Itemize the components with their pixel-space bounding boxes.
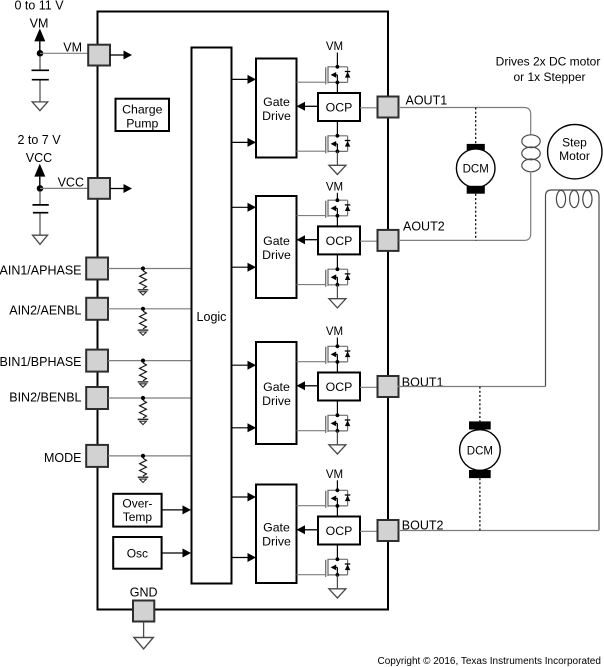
wire: [108, 360, 191, 362]
svg-text:MODE: MODE: [44, 451, 82, 465]
wire: [336, 545, 338, 560]
node VCC: [37, 185, 44, 192]
gate drive U1: [256, 59, 297, 158]
wire: [336, 254, 338, 269]
svg-text:OCP: OCP: [326, 380, 353, 394]
pin BIN2/BENBL: [86, 387, 108, 409]
svg-text:Gate: Gate: [263, 95, 290, 109]
ground: [134, 638, 153, 649]
ground: [138, 290, 149, 295]
node VM: [37, 50, 44, 57]
wire: [297, 81, 326, 83]
wire: [336, 121, 338, 136]
wire: [297, 150, 326, 152]
wire: [108, 268, 191, 270]
svg-text:Gate: Gate: [263, 380, 290, 394]
pin label VCC: [58, 176, 84, 190]
transistor low-side NMOS U3: [326, 413, 351, 433]
svg-text:BOUT1: BOUT1: [402, 376, 444, 390]
wire: [545, 200, 547, 387]
svg-text:DCM: DCM: [467, 445, 493, 457]
supply rail 2 to 7 V / VCC source: [17, 133, 61, 189]
signal arrow logic to gate drive U4 (low): [248, 553, 257, 562]
pin AOUT2: [378, 230, 399, 251]
svg-text:Pump: Pump: [126, 116, 158, 130]
motor DCM1: [456, 144, 495, 194]
ground: [33, 235, 48, 244]
OCP block U4: [318, 517, 360, 545]
signal arrow logic to gate drive U1 (high): [248, 75, 257, 84]
motor DCM2: [460, 421, 501, 478]
svg-text:Motor: Motor: [559, 149, 590, 163]
svg-text:VM: VM: [326, 469, 343, 481]
svg-text:VM: VM: [326, 181, 343, 193]
node AIN2/AENBL: [141, 307, 145, 311]
wire: [297, 430, 326, 432]
node BIN2/BENBL: [141, 396, 145, 400]
wire: [360, 530, 378, 532]
ground: [32, 102, 48, 111]
wire: [360, 240, 378, 242]
wire: [399, 530, 600, 532]
signal arrow OCP to gate drive U2: [297, 235, 319, 244]
gate drive U3: [256, 342, 297, 444]
svg-text:Drive: Drive: [262, 109, 291, 123]
wire: [232, 78, 249, 80]
ground: [138, 382, 149, 387]
pin label MODE: [44, 451, 82, 465]
transistor high-side NMOS U3: [326, 344, 351, 364]
wire: [108, 455, 191, 457]
pin MODE: [86, 445, 108, 467]
wire: [336, 362, 338, 373]
pin BOUT1: [378, 376, 399, 397]
wire: [336, 82, 338, 93]
pin AIN2/AENBL: [86, 298, 108, 320]
svg-text:Osc: Osc: [127, 547, 148, 561]
svg-text:VCC: VCC: [26, 151, 52, 165]
svg-text:Charge: Charge: [122, 102, 162, 116]
wire: [232, 496, 249, 498]
oscillator block: [113, 537, 161, 569]
signal arrow over-temp to logic: [162, 505, 191, 514]
svg-text:Over-: Over-: [122, 497, 152, 511]
svg-text:OCP: OCP: [326, 524, 353, 538]
charge pump block: [116, 99, 170, 131]
wire: [336, 480, 338, 490]
wire: [232, 266, 249, 268]
wire: [232, 364, 249, 366]
svg-text:AIN1/APHASE: AIN1/APHASE: [0, 263, 82, 277]
svg-text:GND: GND: [130, 586, 158, 600]
over-temperature block: [113, 494, 161, 527]
wire: [546, 190, 600, 531]
signal arrow VCC: [110, 184, 132, 193]
annotation copyright: [378, 656, 601, 667]
resistor pulldown AIN2/AENBL: [140, 311, 147, 329]
supply rail 0 to 11 V / VM source: [14, 0, 64, 53]
svg-text:Gate: Gate: [263, 521, 290, 535]
svg-text:DCM: DCM: [463, 164, 489, 176]
pin GND: [133, 601, 154, 622]
svg-text:AOUT2: AOUT2: [403, 219, 445, 233]
OCP block U3: [318, 373, 360, 401]
wire: [336, 193, 338, 200]
wire: [232, 141, 249, 143]
pin AIN1/APHASE: [86, 258, 108, 280]
svg-text:Drive: Drive: [262, 394, 291, 408]
svg-text:AOUT1: AOUT1: [406, 93, 448, 107]
pin BOUT2: [378, 520, 399, 541]
net VM U3: [326, 326, 343, 338]
svg-text:0 to 11 V: 0 to 11 V: [14, 0, 64, 13]
signal arrow VM: [110, 51, 132, 60]
wire: [143, 622, 145, 638]
logic block: [192, 48, 232, 584]
signal arrow logic to gate drive U4 (high): [248, 493, 257, 502]
wire: [475, 194, 477, 241]
wire: [336, 53, 338, 67]
wire: [398, 386, 546, 388]
ground: [138, 330, 149, 335]
wire: [479, 478, 481, 530]
resistor pulldown AIN1/APHASE: [140, 271, 147, 289]
wire: [399, 172, 531, 241]
pin VM: [88, 45, 110, 66]
svg-text:Gate: Gate: [263, 234, 290, 248]
ground: [329, 445, 346, 454]
net VM U1: [326, 41, 343, 53]
net VM U2: [326, 181, 343, 193]
svg-text:Drive: Drive: [262, 248, 291, 262]
inductor winding A: [522, 135, 540, 172]
wire: [297, 505, 326, 507]
wire: [336, 431, 338, 445]
wire: [336, 151, 338, 165]
wire: [479, 387, 481, 422]
wire: [336, 575, 338, 589]
wire: [232, 206, 249, 208]
node MODE: [141, 454, 145, 458]
svg-text:or 1x Stepper: or 1x Stepper: [513, 70, 585, 84]
pin label BOUT1: [402, 376, 444, 390]
pin label AIN1/APHASE: [0, 263, 82, 277]
transistor high-side NMOS U2: [326, 198, 351, 218]
pin label AIN2/AENBL: [9, 303, 81, 317]
wire: [232, 557, 249, 559]
wire: [336, 401, 338, 416]
wire: [360, 386, 378, 388]
net VM U4: [326, 469, 343, 481]
svg-text:BIN1/BPHASE: BIN1/BPHASE: [0, 355, 82, 369]
svg-text:VM: VM: [326, 326, 343, 338]
svg-text:OCP: OCP: [326, 234, 353, 248]
motor step motor: [548, 125, 602, 179]
resistor pulldown BIN1/BPHASE: [140, 363, 147, 381]
ground: [329, 299, 346, 308]
svg-text:Logic: Logic: [197, 310, 227, 324]
svg-text:VM: VM: [30, 17, 49, 31]
svg-text:2 to 7 V: 2 to 7 V: [17, 133, 61, 147]
transistor low-side NMOS U1: [326, 134, 351, 153]
signal arrow logic to gate drive U3 (high): [248, 361, 257, 370]
wire: [336, 216, 338, 227]
resistor pulldown MODE: [140, 458, 147, 476]
node BIN1/BPHASE: [141, 359, 145, 363]
signal arrow OCP to gate drive U3: [297, 381, 319, 390]
annotation drives: [496, 55, 601, 84]
resistor pulldown BIN2/BENBL: [140, 400, 147, 418]
wire: [475, 108, 477, 144]
signal arrow logic to gate drive U2 (high): [248, 203, 257, 212]
svg-text:OCP: OCP: [326, 101, 353, 115]
wire: [40, 187, 88, 189]
OCP block U2: [318, 226, 360, 254]
transistor high-side NMOS U4: [326, 488, 351, 508]
svg-text:Drives 2x DC motor: Drives 2x DC motor: [496, 55, 601, 69]
wire: [297, 284, 326, 286]
svg-text:Copyright © 2016, Texas Instru: Copyright © 2016, Texas Instruments Inco…: [378, 656, 601, 667]
ground: [138, 477, 149, 482]
svg-text:VCC: VCC: [58, 176, 84, 190]
capacitor C2: [33, 191, 49, 235]
wire: [399, 108, 531, 136]
node AIN1/APHASE: [141, 266, 145, 270]
wire: [336, 338, 338, 347]
gate drive U2: [256, 196, 297, 298]
ground: [329, 589, 346, 598]
svg-text:Temp: Temp: [123, 510, 153, 524]
wire: [297, 361, 326, 363]
svg-text:AIN2/AENBL: AIN2/AENBL: [9, 303, 81, 317]
svg-text:Step: Step: [562, 135, 587, 149]
wire: [232, 427, 249, 429]
signal arrow osc to logic: [162, 549, 191, 558]
wire: [40, 52, 88, 54]
ground: [138, 419, 149, 424]
wire: [360, 107, 378, 109]
inductor winding B: [556, 190, 592, 207]
wire: [108, 397, 191, 399]
IC outline DRV8833: [98, 12, 389, 610]
pin label VM: [63, 40, 82, 54]
wire: [297, 574, 326, 576]
pin label BIN1/BPHASE: [0, 355, 82, 369]
pin label BOUT2: [402, 518, 444, 532]
wire: [336, 506, 338, 517]
svg-text:VM: VM: [326, 41, 343, 53]
signal arrow OCP to gate drive U1: [297, 102, 319, 111]
wire: [336, 285, 338, 299]
pin label AOUT2: [403, 219, 445, 233]
signal arrow logic to gate drive U3 (low): [248, 423, 257, 432]
transistor high-side NMOS U1: [326, 65, 351, 85]
wire: [108, 308, 191, 310]
signal arrow OCP to gate drive U4: [297, 525, 319, 534]
pin VCC: [88, 178, 110, 199]
svg-text:Drive: Drive: [262, 535, 291, 549]
gate drive U4: [256, 485, 297, 584]
svg-text:BIN2/BENBL: BIN2/BENBL: [9, 391, 81, 405]
capacitor C1: [32, 56, 50, 102]
transistor low-side NMOS U2: [326, 267, 351, 286]
signal arrow logic to gate drive U2 (low): [248, 263, 257, 272]
pin label BIN2/BENBL: [9, 391, 81, 405]
OCP block U1: [318, 93, 360, 121]
pin label AOUT1: [406, 93, 448, 107]
pin BIN1/BPHASE: [86, 350, 108, 372]
wire: [297, 215, 326, 217]
signal arrow logic to gate drive U1 (low): [248, 138, 257, 147]
svg-text:VM: VM: [63, 40, 82, 54]
ground: [329, 165, 346, 174]
transistor low-side NMOS U4: [326, 557, 351, 577]
pin AOUT1: [378, 97, 399, 118]
pin label GND: [130, 586, 158, 600]
